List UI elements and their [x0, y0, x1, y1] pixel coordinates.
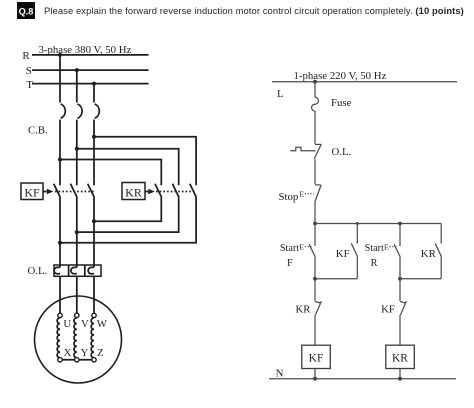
wire line L — [272, 81, 457, 83]
svg-text:E: E — [384, 242, 389, 251]
wire bus R — [32, 54, 149, 56]
wire start R to node C — [399, 257, 401, 279]
node C junction — [398, 277, 402, 281]
circuit breaker C.B. pole 2 — [78, 104, 83, 118]
overload NC contact — [314, 144, 321, 159]
start R actuator E — [384, 242, 398, 251]
KF linkage dotted line — [55, 191, 94, 193]
wire phase 3 upper — [93, 84, 95, 103]
svg-text:R: R — [22, 50, 30, 62]
wire KF coil to N — [314, 369, 316, 379]
wire KR pole 1 return to phase 3 — [94, 197, 161, 221]
coil KF — [302, 345, 331, 368]
svg-text:X: X — [64, 347, 72, 359]
start F pushbutton NO contact — [309, 224, 315, 258]
terminal V — [75, 313, 79, 317]
wire phase 2 lower — [76, 197, 78, 267]
svg-text:Fuse: Fuse — [331, 97, 352, 109]
wire phase 3 lower — [93, 197, 95, 267]
svg-text:1-phase 220 V, 50 Hz: 1-phase 220 V, 50 Hz — [294, 70, 387, 82]
overload heater element 2 — [71, 267, 77, 273]
junction node KF on N — [313, 377, 317, 381]
svg-text:R: R — [371, 258, 378, 269]
junction node tap R — [58, 158, 62, 162]
terminal W — [92, 313, 96, 317]
contactor coil box KR (power) — [122, 183, 145, 200]
svg-text:KR: KR — [125, 185, 142, 199]
wire start F to node B — [314, 257, 316, 279]
overload heater element 3 — [88, 267, 94, 273]
junction node on L — [313, 80, 317, 84]
overload trip actuator — [290, 147, 315, 150]
junction node return on phase 3 — [92, 219, 96, 223]
node B junction — [313, 277, 317, 281]
wire phase 2 mid — [76, 120, 78, 186]
svg-text:N: N — [276, 367, 284, 379]
svg-text:E: E — [299, 242, 304, 251]
start F actuator E — [299, 242, 312, 251]
motor winding U-X — [57, 318, 60, 358]
svg-text:KR: KR — [421, 248, 437, 260]
svg-text:E: E — [299, 189, 304, 198]
wire phase 1 upper — [59, 55, 61, 103]
svg-text:W: W — [97, 318, 108, 330]
wire KR pole 3 return to phase 1 — [60, 197, 196, 242]
junction node rail at KF aux — [356, 222, 359, 225]
svg-text:V: V — [81, 318, 89, 330]
circuit breaker C.B. pole 1 — [61, 104, 66, 118]
overload heater element 1 — [54, 267, 60, 273]
svg-text:Please explain the forward rev: Please explain the forward reverse induc… — [44, 5, 464, 16]
node A junction — [313, 222, 317, 226]
svg-text:Y: Y — [81, 347, 89, 359]
wire KF aux bottom to node B — [315, 278, 357, 280]
svg-text:3-phase 380 V, 50 Hz: 3-phase 380 V, 50 Hz — [39, 44, 132, 56]
stop button actuator E — [299, 189, 314, 198]
svg-text:U: U — [63, 318, 71, 330]
svg-text:O.L.: O.L. — [28, 265, 48, 277]
junction node return on phase 1 — [58, 241, 62, 245]
junction node on S — [75, 68, 79, 72]
contact KF pole 2 — [71, 184, 78, 198]
junction node tap T — [92, 135, 96, 139]
svg-text:Q.8: Q.8 — [19, 7, 34, 17]
svg-text:KR: KR — [392, 352, 408, 364]
KF interlock NC contact — [400, 301, 406, 315]
wire KR pole 2 return to phase 2 — [77, 197, 179, 232]
svg-text:T: T — [26, 79, 33, 91]
question number box Q.8 — [17, 2, 35, 19]
motor winding V-Y — [74, 318, 77, 358]
KF auxiliary NO contact — [351, 224, 357, 279]
svg-text:L: L — [277, 88, 284, 100]
contact KR pole 1 — [155, 184, 162, 198]
wire KR coil to N — [399, 369, 401, 379]
junction node on T — [92, 82, 96, 86]
svg-text:KF: KF — [336, 248, 350, 260]
wire bus S — [32, 69, 149, 71]
wire tap T to KR pole 3 — [94, 137, 196, 186]
wire phase 3 mid — [93, 120, 95, 186]
svg-text:F: F — [287, 258, 293, 269]
contact KF pole 3 — [88, 184, 95, 198]
wire tap S to KR pole 2 — [77, 149, 179, 186]
wire phase 1 mid — [59, 120, 61, 186]
wire Stop to node A — [314, 201, 316, 224]
wire to motor W — [93, 276, 95, 313]
wire to motor U — [59, 276, 61, 313]
wire top rail — [315, 223, 441, 225]
wire KR aux bottom to node C — [400, 278, 441, 280]
svg-text:KF: KF — [24, 185, 40, 199]
contactor coil box KF (power) — [21, 183, 43, 200]
coil KR — [386, 345, 415, 368]
label Start F — [280, 243, 299, 269]
svg-text:Start: Start — [280, 243, 299, 254]
wire node B to KR interlock — [314, 279, 316, 301]
KR interlock NC contact — [315, 301, 321, 315]
KR linkage dotted line — [156, 191, 196, 193]
svg-text:KF: KF — [381, 303, 395, 315]
svg-text:Start: Start — [365, 243, 384, 254]
overload relay O.L. box — [54, 265, 101, 276]
wire phase 2 upper — [76, 70, 78, 102]
junction node return on phase 2 — [75, 230, 79, 234]
wire bus T — [32, 83, 149, 85]
contact KR pole 2 — [172, 184, 179, 198]
wire O.L. to Stop — [314, 159, 316, 184]
wire L to fuse — [314, 82, 316, 98]
contact KF pole 1 — [54, 184, 61, 198]
junction node tap S — [75, 147, 79, 151]
wire KF interlock to KR coil — [399, 315, 401, 345]
contact KR pole 3 — [190, 184, 197, 198]
wire line N — [269, 378, 456, 380]
junction node rail at R branch — [398, 222, 402, 226]
terminal X — [58, 358, 62, 362]
KR auxiliary NO contact — [435, 224, 441, 279]
fuse — [312, 97, 319, 111]
KF linkage arrow — [44, 189, 54, 194]
svg-text:KR: KR — [296, 303, 312, 315]
wire KR interlock to KF coil — [314, 315, 316, 345]
wire to motor V — [76, 276, 78, 313]
svg-text:Z: Z — [97, 347, 104, 359]
motor winding W-Z — [91, 318, 94, 358]
junction node on R — [58, 53, 62, 57]
svg-text:KF: KF — [309, 352, 324, 364]
motor body circle — [35, 296, 122, 383]
terminal Z — [92, 358, 96, 362]
wire tap R to KR pole 1 — [60, 160, 161, 186]
wire phase 1 lower — [59, 197, 61, 267]
terminal U — [58, 313, 62, 317]
circuit breaker C.B. pole 3 — [95, 104, 100, 118]
star point bar — [58, 359, 96, 361]
KR linkage arrow — [146, 189, 155, 194]
svg-text:Stop: Stop — [279, 191, 299, 203]
start R pushbutton NO contact — [394, 224, 400, 258]
wire fuse to O.L. contact — [314, 111, 316, 144]
wire node C to KF interlock — [399, 279, 401, 301]
terminal Y — [75, 358, 79, 362]
svg-text:S: S — [26, 65, 32, 77]
stop pushbutton NC contact — [315, 185, 321, 201]
label Start R — [365, 243, 384, 269]
svg-text:O.L.: O.L. — [332, 146, 352, 158]
svg-text:C.B.: C.B. — [28, 125, 48, 137]
junction node KR on N — [398, 377, 402, 381]
